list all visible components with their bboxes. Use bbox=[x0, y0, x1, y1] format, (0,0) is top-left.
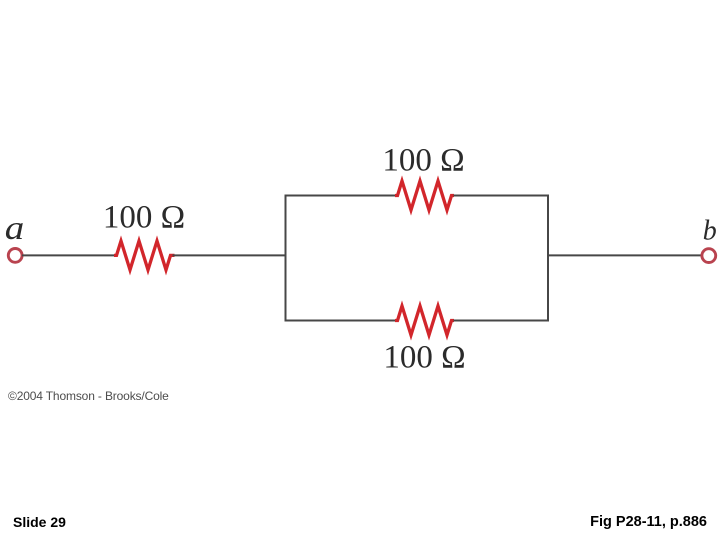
wire bottom-left horizontal bbox=[285, 320, 396, 322]
wire top-left horizontal bbox=[285, 195, 396, 197]
svg-text:100 Ω: 100 Ω bbox=[382, 143, 464, 179]
svg-text:Fig P28-11, p.886: Fig P28-11, p.886 bbox=[590, 514, 707, 530]
wire a to R1 bbox=[22, 254, 115, 256]
node b bbox=[702, 249, 716, 263]
svg-text:Slide 29: Slide 29 bbox=[13, 514, 66, 530]
node a bbox=[8, 249, 22, 263]
svg-text:100 Ω: 100 Ω bbox=[383, 340, 465, 376]
svg-text:b: b bbox=[703, 216, 717, 247]
wire R1 to parallel box bbox=[173, 254, 287, 256]
svg-text:a: a bbox=[5, 210, 25, 247]
wire top-right horizontal bbox=[454, 195, 550, 197]
svg-text:100 Ω: 100 Ω bbox=[103, 200, 185, 236]
wire left vertical of parallel box bbox=[285, 195, 287, 322]
resistor R3 bbox=[395, 306, 454, 335]
wire right vertical of parallel box bbox=[547, 195, 549, 322]
wire bottom-right horizontal bbox=[454, 320, 550, 322]
wire box to b bbox=[548, 254, 702, 256]
resistor R2 bbox=[395, 181, 454, 210]
resistor R1 bbox=[114, 241, 175, 270]
svg-text:©2004 Thomson - Brooks/Cole: ©2004 Thomson - Brooks/Cole bbox=[8, 389, 169, 403]
